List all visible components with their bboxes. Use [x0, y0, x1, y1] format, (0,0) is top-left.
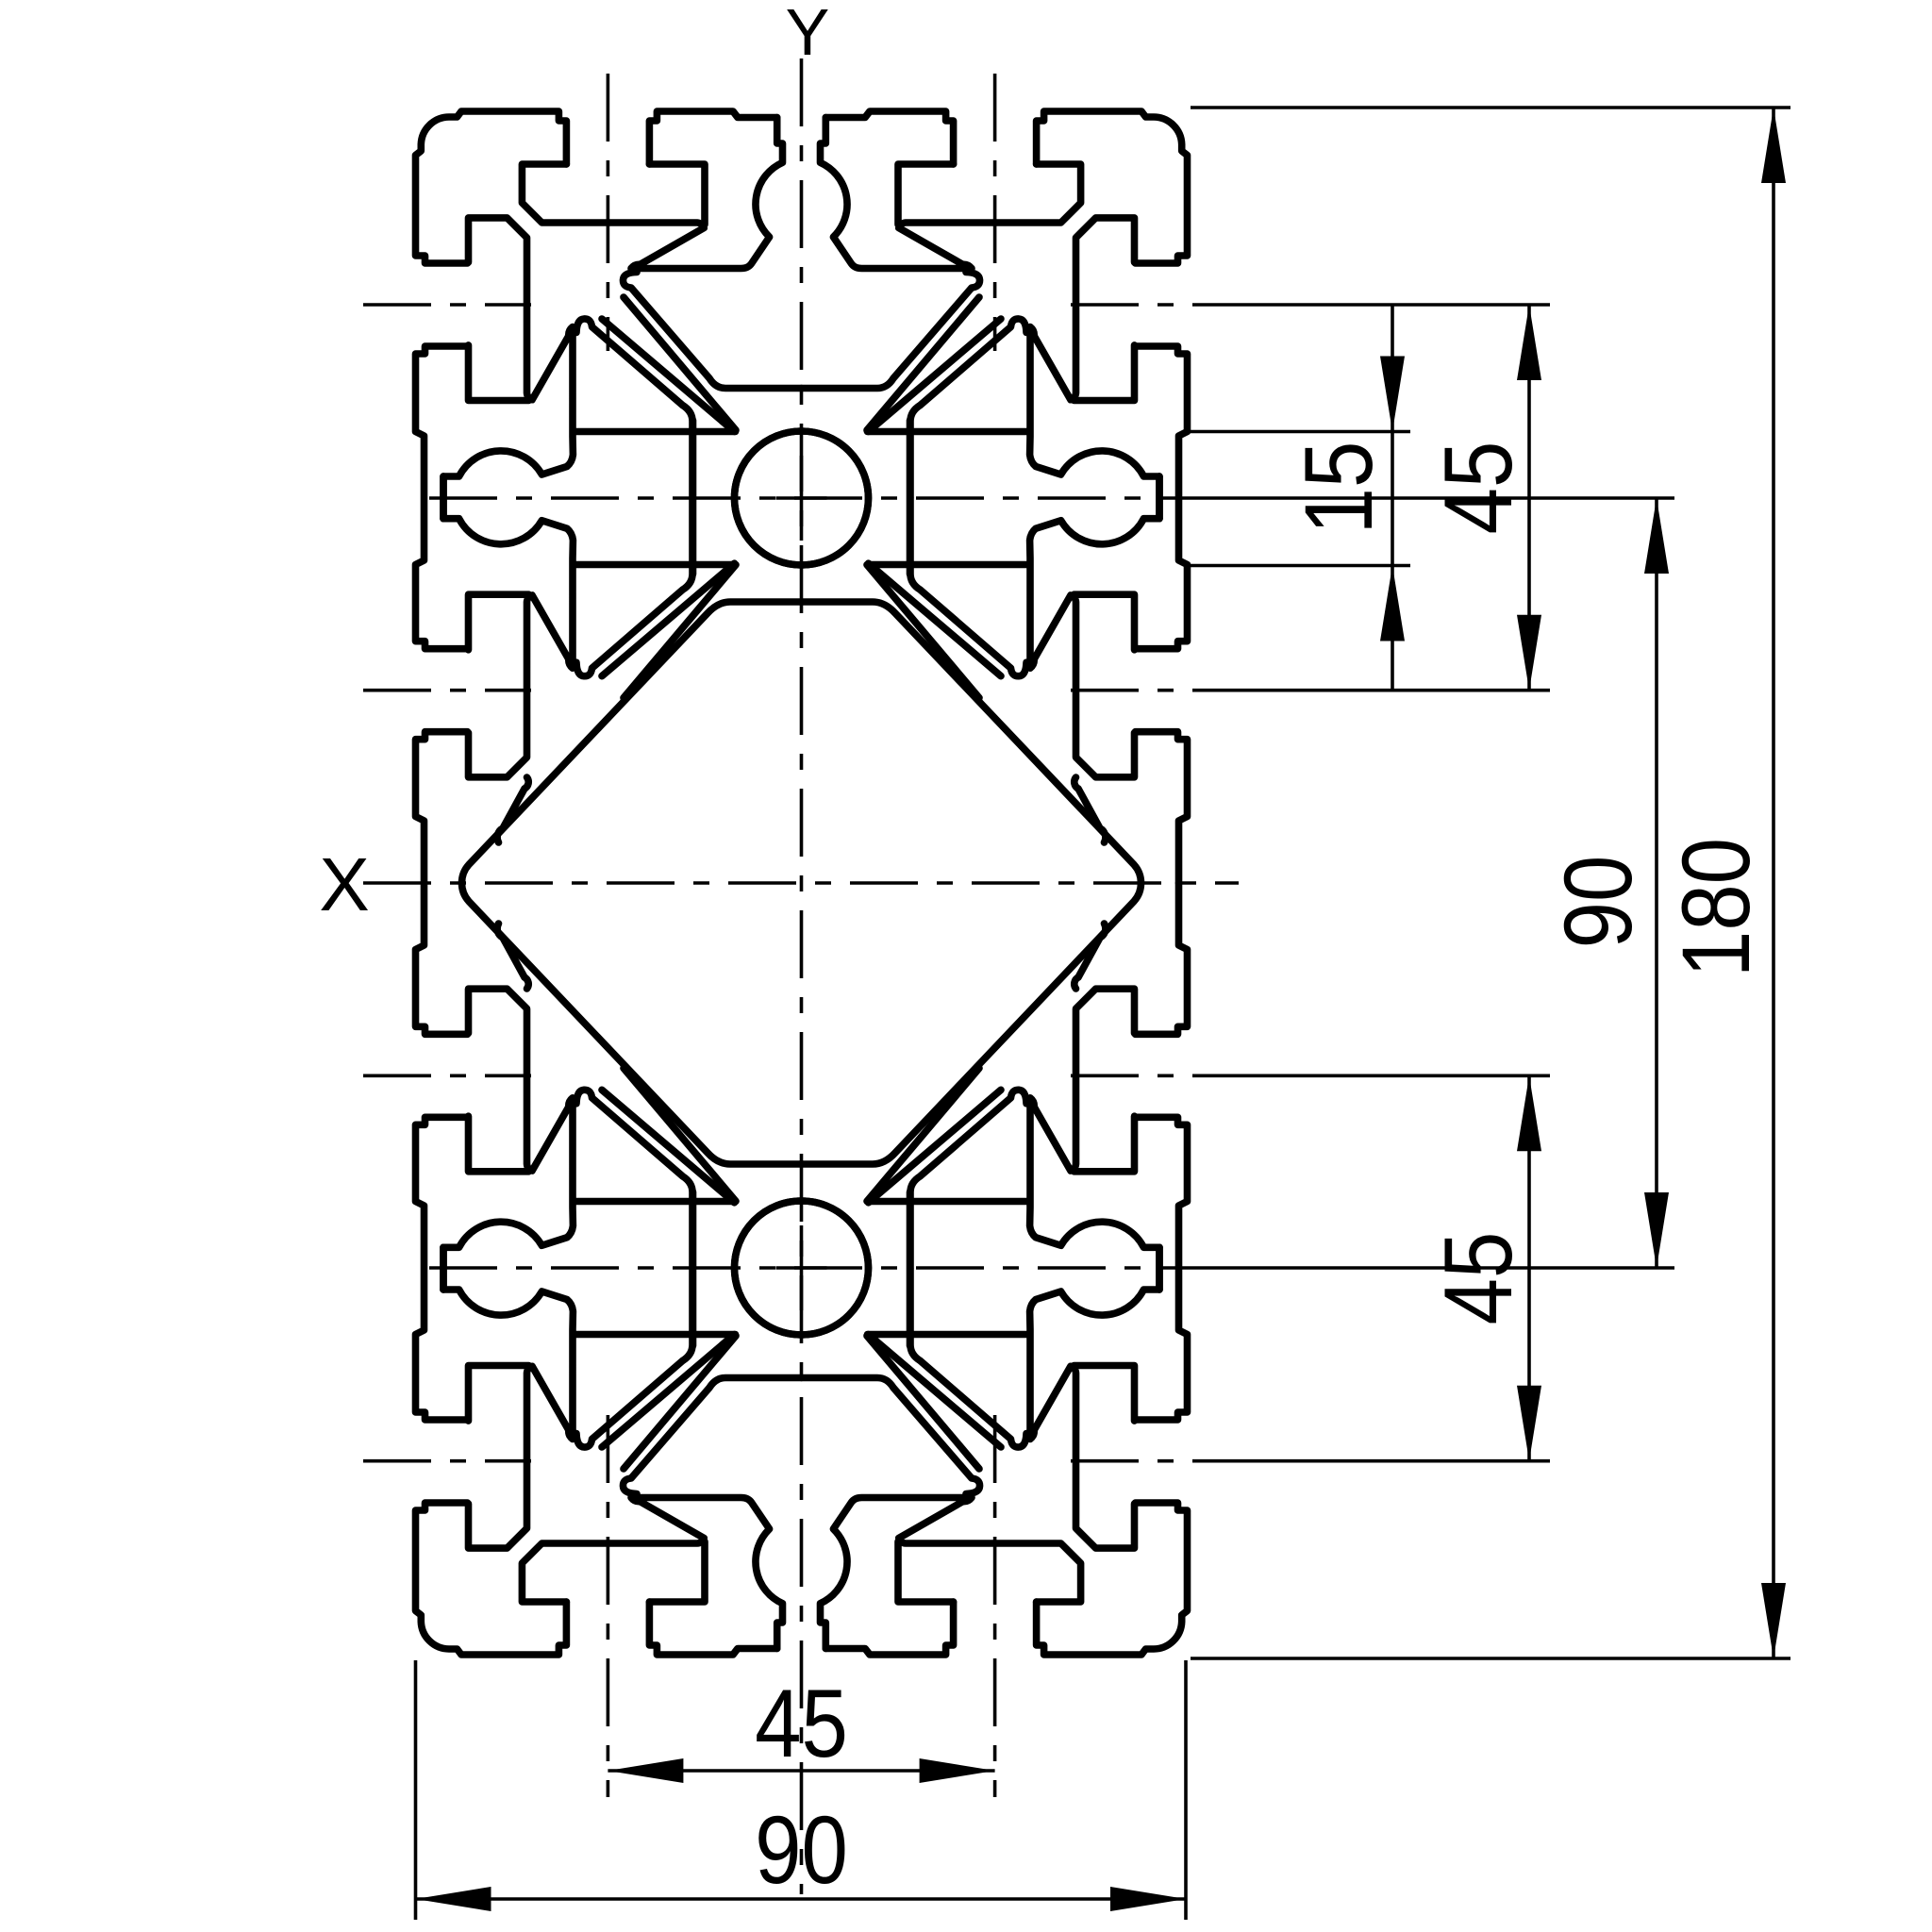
svg-text:X: X [319, 842, 369, 926]
svg-text:15: 15 [1285, 441, 1392, 535]
svg-text:Y: Y [786, 0, 830, 69]
svg-text:90: 90 [755, 1796, 848, 1904]
dimension extension and dimension lines [416, 108, 1791, 1920]
svg-text:45: 45 [755, 1670, 848, 1777]
svg-text:180: 180 [1662, 838, 1770, 977]
centerlines: X and Y axes, slot axes, bore axes [363, 58, 1239, 1894]
profile cross-section, mirrored bottom half [416, 883, 1188, 1655]
svg-text:45: 45 [1424, 1232, 1532, 1325]
svg-text:45: 45 [1424, 441, 1532, 535]
svg-text:90: 90 [1544, 856, 1652, 949]
dimension arrowheads [1380, 357, 1405, 432]
profile cross-section 90x180, top half (outer contour, T-slots, core bores, webs) [416, 111, 1188, 883]
